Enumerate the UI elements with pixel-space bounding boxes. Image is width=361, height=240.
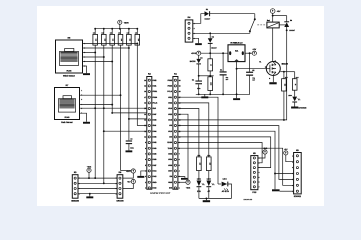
svg-text:IO22: IO22	[168, 101, 172, 104]
svg-text:+3V3: +3V3	[124, 22, 130, 25]
svg-text:IO37: IO37	[153, 113, 157, 116]
svg-text:FSD1: FSD1	[153, 90, 158, 93]
svg-text:FCLK: FCLK	[167, 90, 172, 93]
svg-text:C4: C4	[192, 78, 194, 81]
svg-text:IO23: IO23	[168, 113, 172, 116]
svg-text:Wind Sensor: Wind Sensor	[63, 74, 75, 77]
svg-text:10k: 10k	[128, 39, 130, 42]
svg-text:BS170: BS170	[282, 63, 289, 66]
svg-text:C2: C2	[252, 69, 254, 72]
svg-text:IO25: IO25	[153, 153, 157, 156]
svg-text:IO38: IO38	[168, 164, 172, 167]
svg-text:IO38: IO38	[153, 118, 157, 121]
svg-text:IO32: IO32	[153, 141, 157, 144]
svg-text:220: 220	[198, 163, 200, 166]
svg-text:+3V3: +3V3	[186, 187, 190, 190]
svg-text:IO34: IO34	[168, 158, 172, 161]
svg-text:IO21: IO21	[153, 84, 157, 87]
svg-text:D1: D1	[206, 8, 208, 11]
svg-text:IO12: IO12	[153, 175, 157, 178]
svg-text:IO13: IO13	[153, 187, 157, 190]
svg-text:T1: T1	[259, 61, 261, 64]
svg-text:GROVE: GROVE	[116, 199, 124, 202]
svg-text:10k: 10k	[137, 39, 139, 42]
svg-text:SDS011: SDS011	[294, 195, 302, 198]
svg-text:FSD2: FSD2	[168, 79, 173, 82]
svg-text:BAT85: BAT85	[190, 60, 196, 63]
svg-text:10k: 10k	[120, 39, 122, 42]
svg-text:FCLK: FCLK	[153, 101, 158, 104]
svg-text:IO34: IO34	[153, 130, 157, 133]
svg-text:IO9: IO9	[169, 136, 172, 139]
svg-text:10k: 10k	[103, 39, 105, 42]
svg-text:2k2: 2k2	[283, 84, 285, 86]
svg-text:IO19: IO19	[168, 107, 172, 110]
svg-text:IO35: IO35	[153, 136, 157, 139]
svg-text:IO27: IO27	[153, 164, 157, 167]
svg-text:IO22: IO22	[153, 79, 157, 82]
svg-text:3V3: 3V3	[169, 187, 172, 190]
svg-text:+3V3: +3V3	[263, 147, 267, 150]
svg-text:10k: 10k	[95, 39, 97, 42]
svg-text:10k: 10k	[112, 39, 114, 42]
svg-text:IO35: IO35	[168, 153, 172, 156]
svg-text:IO21: IO21	[168, 96, 172, 99]
svg-text:220: 220	[208, 163, 210, 166]
svg-text:TXD0: TXD0	[168, 147, 173, 150]
svg-text:FSS: FSS	[252, 191, 257, 194]
svg-text:R-78E5.0-1.0: R-78E5.0-1.0	[231, 41, 244, 44]
svg-text:IO26: IO26	[153, 158, 157, 161]
svg-text:+3V3: +3V3	[87, 165, 91, 168]
svg-text:IO14: IO14	[153, 170, 157, 173]
svg-text:CHARGE: CHARGE	[298, 107, 307, 110]
svg-text:+3V3: +3V3	[191, 52, 197, 55]
svg-text:C1: C1	[220, 69, 222, 72]
svg-text:IO5: IO5	[169, 124, 172, 127]
svg-text:FSD3: FSD3	[168, 84, 173, 87]
svg-text:IO10: IO10	[168, 130, 172, 133]
svg-text:+5V: +5V	[252, 48, 256, 51]
svg-text:Rain Sensor: Rain Sensor	[61, 121, 73, 124]
svg-text:AP-ETH: AP-ETH	[222, 190, 230, 193]
svg-text:IO33: IO33	[153, 147, 157, 150]
svg-text:FSD0: FSD0	[153, 96, 158, 99]
svg-text:RXD0: RXD0	[167, 141, 172, 144]
svg-text:Re1: Re1	[267, 19, 270, 22]
svg-text:100k: 100k	[210, 82, 212, 85]
svg-text:+5V: +5V	[277, 10, 281, 13]
svg-text:IO18: IO18	[168, 118, 172, 121]
svg-text:+3V3: +3V3	[126, 170, 130, 173]
svg-text:IO37: IO37	[168, 170, 172, 173]
svg-text:BME280: BME280	[71, 199, 80, 202]
svg-text:ESP32 PICO KIT: ESP32 PICO KIT	[150, 192, 170, 195]
